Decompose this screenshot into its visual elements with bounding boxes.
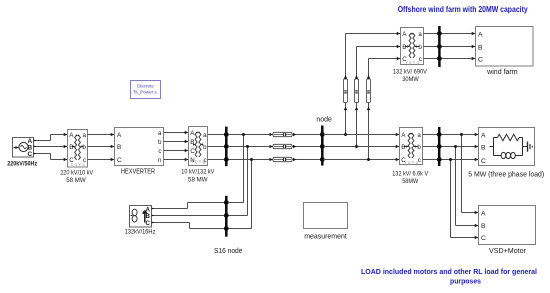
svg-text:c: c	[418, 157, 421, 164]
svg-text:n: n	[158, 157, 162, 164]
svg-text:Discrete: Discrete	[137, 84, 154, 89]
svg-text:b: b	[418, 44, 422, 51]
svg-text:B: B	[481, 223, 486, 230]
svg-text:A: A	[481, 211, 486, 218]
svg-text:A: A	[481, 132, 486, 139]
svg-text:wind farm: wind farm	[486, 67, 517, 76]
svg-text:C: C	[117, 157, 122, 164]
svg-text:Ts_Power s.: Ts_Power s.	[133, 90, 158, 95]
svg-text:Y g Y g: Y g Y g	[404, 160, 419, 165]
svg-text:B: B	[69, 144, 73, 151]
svg-text:b: b	[158, 139, 162, 146]
svg-text:c: c	[419, 56, 422, 63]
svg-text:b: b	[203, 144, 207, 151]
svg-text:30MW: 30MW	[402, 76, 419, 83]
svg-text:measurement: measurement	[304, 232, 347, 241]
svg-text:C: C	[27, 151, 32, 158]
svg-text:N: N	[190, 157, 194, 164]
svg-text:a: a	[83, 132, 87, 139]
svg-text:B: B	[117, 144, 121, 151]
svg-text:132kV/16Hz: 132kV/16Hz	[125, 229, 156, 236]
svg-text:a: a	[417, 132, 421, 139]
svg-text:LOAD included motors and other: LOAD included motors and other RL load f…	[361, 267, 537, 276]
svg-text:b: b	[417, 144, 421, 151]
svg-text:node: node	[316, 114, 332, 123]
svg-text:c: c	[204, 157, 207, 164]
svg-text:c: c	[83, 157, 86, 164]
svg-text:C: C	[146, 220, 151, 227]
svg-text:220kV/50Hz: 220kV/50Hz	[7, 160, 37, 167]
svg-text:B: B	[402, 44, 406, 51]
svg-text:a: a	[158, 130, 162, 137]
svg-text:C: C	[190, 148, 195, 155]
svg-text:5 MW (three phase load): 5 MW (three phase load)	[468, 169, 544, 178]
svg-text:132 kV/ 6.6k V: 132 kV/ 6.6k V	[392, 171, 428, 178]
svg-text:a: a	[418, 31, 422, 38]
svg-text:132 kV/ 690V: 132 kV/ 690V	[393, 69, 427, 76]
svg-text:B: B	[190, 139, 194, 146]
svg-text:58 MW: 58 MW	[66, 177, 86, 184]
svg-text:58MW: 58MW	[402, 178, 418, 185]
svg-text:B: B	[478, 45, 483, 52]
svg-text:A: A	[117, 132, 122, 139]
svg-text:S16 node: S16 node	[214, 248, 243, 255]
svg-text:C: C	[401, 157, 406, 164]
svg-text:a: a	[203, 132, 207, 139]
svg-text:HEXVERTER: HEXVERTER	[121, 169, 155, 176]
svg-text:C: C	[402, 56, 407, 63]
svg-text:C: C	[481, 235, 486, 242]
svg-text:C: C	[481, 158, 486, 165]
svg-text:Offshore wind farm with 20MW c: Offshore wind farm with 20MW capacity	[398, 5, 528, 14]
svg-text:C: C	[478, 57, 483, 64]
svg-text:VSD+Motor: VSD+Motor	[489, 246, 527, 255]
svg-text:purposes: purposes	[450, 276, 481, 285]
svg-text:B: B	[401, 144, 405, 151]
svg-text:220 kV/10 kV: 220 kV/10 kV	[60, 169, 93, 176]
svg-text:Y g Y g: Y g Y g	[405, 60, 420, 65]
svg-text:c: c	[158, 148, 161, 155]
svg-text:58 MW: 58 MW	[188, 176, 208, 183]
svg-text:B: B	[481, 145, 486, 152]
svg-text:A: A	[478, 32, 483, 39]
svg-text:b: b	[83, 144, 87, 151]
svg-text:C: C	[69, 157, 74, 164]
svg-text:10 kV/132 kV: 10 kV/132 kV	[181, 169, 214, 176]
